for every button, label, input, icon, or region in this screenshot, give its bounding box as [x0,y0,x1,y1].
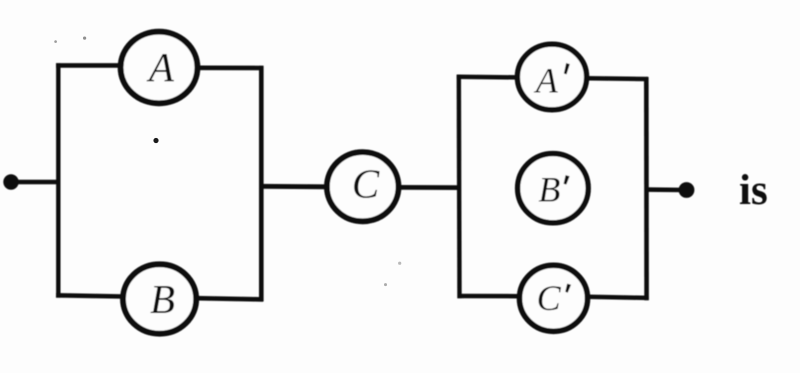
svg-text:B: B [538,170,560,210]
svg-text:A: A [534,60,559,100]
wire input lead [11,180,60,185]
wire left block right edge [259,66,264,302]
output terminal dot [679,182,695,198]
speck top left b [83,37,86,40]
svg-text:C: C [352,161,380,207]
component B' (not wired) [518,154,589,223]
wire middle right segment [399,185,461,190]
svg-text:is: is [739,167,768,214]
wire middle left segment [259,184,327,189]
wire right block left edge [457,75,462,298]
wire left block top branch right segment [197,66,263,71]
input terminal dot [3,174,18,189]
faint speck 1 [398,262,401,265]
wire left block left edge [56,63,60,297]
component B [123,264,196,333]
wire output lead [645,187,687,192]
component C' [520,265,588,331]
ink speck near A [153,138,158,143]
wire right block bottom branch right segment [587,297,648,298]
wire left block bottom branch right segment [196,298,263,299]
wire right block top branch right segment [586,76,648,81]
wire right block top branch left segment [457,75,519,80]
wire left block bottom branch left segment [56,295,124,296]
wire right block right edge [644,77,649,300]
component A [121,32,198,104]
faint speck 2 [384,283,387,286]
svg-text:B: B [150,276,175,322]
wire left block top branch left segment [56,63,123,68]
svg-text:C: C [537,278,562,318]
speck top left a [54,40,57,43]
svg-text:A: A [146,44,175,90]
component A' [517,44,586,110]
wire right block bottom branch left segment [458,294,521,299]
component C [327,152,399,221]
